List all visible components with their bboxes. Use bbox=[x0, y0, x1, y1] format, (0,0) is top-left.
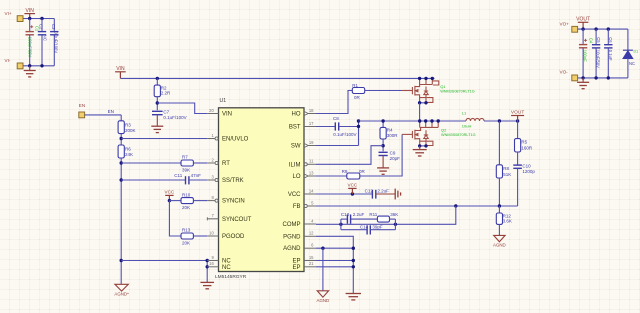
wire C1 top stub bbox=[29, 19, 31, 31]
ground (C7) bbox=[151, 126, 163, 132]
resistor R6 bbox=[118, 145, 124, 158]
node PGND bus 1 bbox=[352, 247, 355, 250]
wire input top rail bbox=[23, 18, 54, 20]
power symbol VOUT (output section) bbox=[578, 22, 589, 29]
pin 14 VCC (U1 right) bbox=[304, 193, 316, 195]
node C5 bottom bbox=[594, 76, 597, 79]
pin 15 EP (U1 right) bbox=[304, 260, 316, 262]
capacitor C1 (electrolytic, polarized) bbox=[26, 32, 34, 35]
svg-text:3.6K: 3.6K bbox=[503, 219, 512, 224]
svg-text:R10: R10 bbox=[182, 192, 191, 197]
wire pin18 HO to R1 bbox=[316, 91, 352, 114]
wire R5 to C10 bbox=[517, 152, 519, 165]
node VCC pullup node bbox=[168, 199, 171, 202]
svg-text:R7: R7 bbox=[182, 155, 188, 160]
svg-text:U1: U1 bbox=[220, 98, 227, 104]
svg-text:SYNCOUT: SYNCOUT bbox=[222, 217, 252, 223]
ground AGND (pin 6) bbox=[317, 291, 328, 297]
svg-text:C11: C11 bbox=[174, 173, 182, 178]
node C1 bottom bbox=[28, 64, 31, 67]
node EN/UVLO bbox=[120, 137, 123, 140]
svg-text:18: 18 bbox=[309, 108, 314, 113]
svg-text:C8: C8 bbox=[333, 116, 339, 121]
node Q2 D3 bbox=[430, 119, 433, 122]
resistor R13 bbox=[181, 233, 193, 239]
wire pin5 FB line bbox=[316, 205, 518, 207]
pin 13 LO (U1 right) bbox=[304, 174, 308, 178]
power symbol VCC (left) bbox=[165, 195, 173, 200]
svg-text:0R: 0R bbox=[354, 95, 361, 100]
pin 10 PGOOD (U1 left) bbox=[207, 235, 218, 237]
svg-text:20pF: 20pF bbox=[390, 156, 401, 161]
svg-text:R3: R3 bbox=[125, 122, 131, 127]
svg-text:R11: R11 bbox=[369, 212, 377, 217]
wire C12 to ground bbox=[376, 193, 395, 195]
capacitor C12 bbox=[372, 190, 375, 199]
port VO- pad bbox=[572, 75, 578, 81]
wire pin15 EP bbox=[316, 260, 353, 262]
svg-text:WNM3S0870RLT1G: WNM3S0870RLT1G bbox=[440, 90, 475, 94]
svg-text:PGND: PGND bbox=[283, 234, 301, 240]
svg-text:COMP: COMP bbox=[283, 222, 301, 228]
node VCC bbox=[351, 192, 354, 195]
wire R10 to pin8 SYNCIN bbox=[193, 200, 207, 202]
wire comp bottom branch b bbox=[370, 229, 395, 231]
wire VOUT to R5 bbox=[517, 121, 519, 139]
pin 6 AGND (U1 right) bbox=[304, 247, 316, 249]
resistor R10 bbox=[181, 198, 193, 204]
node R7 tap bbox=[120, 161, 123, 164]
pin 20 VIN (U1 left) bbox=[207, 113, 218, 115]
pin 16 NC (U1 left) bbox=[207, 266, 218, 268]
wire C8 to SW riser bbox=[339, 126, 359, 128]
svg-text:24K: 24K bbox=[125, 152, 133, 157]
port VI+ pad bbox=[17, 16, 23, 22]
port EN pad bbox=[79, 112, 85, 118]
resistor R2 bbox=[154, 85, 160, 97]
wire EN to R3 bbox=[120, 115, 122, 121]
wire C1 bottom stub bbox=[29, 35, 31, 66]
wire C7 to ground bbox=[156, 115, 158, 127]
wire Q2 source tie bbox=[420, 145, 426, 147]
node Q1 S1 bbox=[418, 101, 421, 104]
capacitor C8 bbox=[335, 122, 338, 130]
node C6 bottom bbox=[607, 76, 610, 79]
pin 8 SYNCIN (U1 left) bbox=[207, 200, 215, 202]
pin 17 BST (U1 right) bbox=[304, 126, 316, 128]
node C6 top bbox=[607, 27, 610, 30]
svg-text:39K: 39K bbox=[182, 168, 190, 173]
wire C5 top stub bbox=[595, 29, 597, 44]
wire VOUT to R8 bbox=[498, 121, 500, 165]
svg-text:47nF: 47nF bbox=[191, 173, 202, 178]
wire AGND bus left column bbox=[120, 158, 122, 284]
node Q2 D1 bbox=[418, 119, 421, 122]
node NC row tap bbox=[120, 259, 123, 262]
svg-text:BST: BST bbox=[289, 125, 301, 131]
svg-text:C4: C4 bbox=[589, 38, 594, 44]
svg-text:C7: C7 bbox=[163, 109, 169, 114]
wire FB to R12 bbox=[498, 206, 500, 213]
svg-text:WNM3S0870RLT1G: WNM3S0870RLT1G bbox=[441, 133, 476, 137]
svg-text:C5: C5 bbox=[596, 37, 601, 43]
ground (PGND/EP) bbox=[346, 294, 361, 300]
svg-text:C3: C3 bbox=[51, 24, 56, 30]
svg-text:R8: R8 bbox=[503, 166, 509, 171]
node C2 bottom bbox=[40, 64, 43, 67]
wire comp bottom branch a bbox=[341, 229, 367, 231]
svg-text:VOUT: VOUT bbox=[511, 110, 524, 116]
wire C4 top stub bbox=[582, 29, 584, 44]
wire SW rail bbox=[359, 120, 467, 122]
svg-text:VIN: VIN bbox=[26, 8, 35, 14]
capacitor C5 bbox=[592, 45, 600, 48]
resistor R8 bbox=[496, 165, 502, 178]
node FB divider bbox=[498, 204, 501, 207]
wire L1 to VOUT node bbox=[484, 120, 518, 122]
wire C2 bottom stub bbox=[41, 35, 43, 65]
ground (input section) bbox=[24, 71, 36, 77]
wire input bottom rail bbox=[23, 65, 54, 67]
svg-text:VO-: VO- bbox=[560, 70, 569, 75]
ground AGND* (left column) bbox=[115, 284, 128, 291]
svg-text:RT: RT bbox=[222, 161, 230, 167]
svg-text:16: 16 bbox=[209, 261, 214, 266]
node comp right bbox=[394, 223, 397, 226]
wire pin11 ILIM bbox=[316, 146, 383, 165]
wire D1 top stub bbox=[627, 29, 629, 50]
svg-text:VO+: VO+ bbox=[560, 22, 570, 27]
capacitor C6 bbox=[604, 45, 612, 48]
pin 4 COMP (U1 right) bbox=[304, 223, 316, 225]
wire pin12 PGND bbox=[316, 236, 353, 293]
capacitor C2 bbox=[38, 32, 46, 35]
svg-text:13: 13 bbox=[309, 170, 314, 175]
svg-text:AGND: AGND bbox=[283, 246, 301, 252]
wire C6 bottom stub bbox=[607, 49, 609, 78]
svg-text:10: 10 bbox=[209, 230, 214, 235]
pin 18 HO (U1 right) bbox=[304, 111, 308, 115]
resistor R3 bbox=[118, 121, 124, 134]
wire AGND drop bbox=[322, 248, 324, 291]
svg-text:39pF: 39pF bbox=[372, 224, 383, 229]
port VI- pad bbox=[17, 63, 23, 69]
wire VCC to R10 bbox=[169, 200, 181, 202]
diode D1 (zener, NC) bbox=[623, 50, 633, 58]
svg-text:L1: L1 bbox=[462, 111, 467, 116]
node Q1 S2 bbox=[424, 101, 427, 104]
node PGND bus 3 bbox=[352, 265, 355, 268]
wire R9 to Q2 gate bbox=[360, 134, 402, 176]
wire VIN rail bbox=[120, 77, 434, 79]
svg-text:EP: EP bbox=[292, 265, 300, 271]
wire output top rail bbox=[578, 28, 628, 30]
node C1 top bbox=[28, 17, 31, 20]
svg-text:ILIM: ILIM bbox=[289, 162, 301, 168]
transistor Q2 (low-side NMOS WNM3S0870RLT1G) bbox=[402, 121, 438, 146]
wire to pin9 NC bbox=[121, 260, 207, 262]
wire R1 to Q1 gate bbox=[365, 90, 402, 92]
wire C4 bottom stub bbox=[582, 48, 584, 78]
wire D1 bottom stub bbox=[627, 58, 629, 78]
pin 21 EP (U1 right) bbox=[304, 266, 316, 268]
node PGND bus 2 bbox=[352, 259, 355, 262]
svg-text:SYNCIN: SYNCIN bbox=[222, 199, 245, 205]
node Q1 D2 bbox=[424, 77, 427, 80]
wire to C11 bbox=[121, 179, 185, 181]
resistor R9 bbox=[347, 173, 360, 179]
pin 19 SW (U1 right) bbox=[304, 143, 308, 147]
resistor R11 bbox=[377, 216, 389, 222]
svg-text:R4: R4 bbox=[387, 128, 393, 133]
svg-text:VCC: VCC bbox=[165, 190, 175, 195]
node Q2 D4 bbox=[437, 119, 440, 122]
resistor R5 bbox=[515, 139, 521, 152]
svg-text:14: 14 bbox=[309, 188, 314, 193]
wire C3 bottom stub bbox=[53, 35, 55, 65]
ground (output section) bbox=[577, 82, 589, 88]
wire R7 to pin2 RT bbox=[193, 162, 207, 164]
wire pin13 LO to R9 bbox=[316, 175, 347, 177]
svg-text:2.2uF: 2.2uF bbox=[353, 212, 365, 217]
wire pin19 SW bbox=[316, 145, 359, 147]
resistor R1 bbox=[352, 88, 364, 94]
node Q1 D1 bbox=[418, 77, 421, 80]
svg-text:11: 11 bbox=[309, 159, 314, 164]
wire C9 to ground bbox=[382, 156, 384, 168]
wire R3 to R6 / EN-UVLO node bbox=[120, 134, 122, 145]
capacitor C11 bbox=[186, 176, 189, 184]
svg-text:2.2uF: 2.2uF bbox=[377, 189, 389, 194]
svg-text:AGND: AGND bbox=[317, 298, 330, 303]
svg-text:200K: 200K bbox=[125, 128, 136, 133]
svg-text:C2: C2 bbox=[39, 24, 44, 30]
node Q1 D3 bbox=[431, 77, 434, 80]
pin 1 EN/UVLO (U1 left) bbox=[207, 138, 215, 140]
pin 11 ILIM (U1 right) bbox=[304, 163, 307, 166]
wire VCC down to R13 bbox=[169, 201, 181, 236]
wire pin9-pin16 tie bbox=[206, 261, 208, 283]
wire output bottom rail bbox=[578, 77, 628, 79]
node R4 top bbox=[381, 119, 384, 122]
svg-text:Q2: Q2 bbox=[441, 127, 447, 132]
svg-text:NC: NC bbox=[222, 259, 231, 265]
resistor R12 bbox=[496, 213, 502, 224]
wire comp branch right stub bbox=[394, 219, 396, 230]
node C4 top bbox=[581, 27, 584, 30]
svg-text:LO: LO bbox=[292, 174, 300, 180]
pin 5 FB (U1 right) bbox=[304, 204, 307, 207]
svg-text:VOUT: VOUT bbox=[576, 17, 590, 23]
svg-text:D1: D1 bbox=[634, 50, 639, 54]
wire C11 to pin3 SS/TRK bbox=[189, 179, 207, 181]
node pin9 bbox=[206, 259, 209, 262]
svg-text:19: 19 bbox=[309, 140, 314, 145]
capacitor C10 bbox=[513, 165, 522, 168]
svg-text:HO: HO bbox=[292, 112, 301, 118]
wire comp top branch b bbox=[351, 218, 378, 220]
wire output ground stub bbox=[582, 78, 584, 82]
svg-text:NC: NC bbox=[42, 35, 47, 41]
wire to pin20 VIN bbox=[157, 103, 207, 114]
svg-text:EN: EN bbox=[108, 109, 114, 114]
pin 3 SS/TRK (U1 left) bbox=[207, 179, 215, 181]
node C4 bottom bbox=[581, 76, 584, 79]
node AGND tap bbox=[321, 247, 324, 250]
svg-text:VI+: VI+ bbox=[5, 11, 12, 16]
ground (Q2 source) bbox=[413, 150, 427, 156]
node pin16 bbox=[206, 265, 209, 268]
svg-text:0R: 0R bbox=[359, 169, 366, 174]
svg-text:51K: 51K bbox=[503, 172, 511, 177]
transistor Q1 (high-side NMOS WNM3S0870RLT1G) bbox=[402, 78, 439, 102]
svg-text:EP: EP bbox=[292, 259, 300, 265]
ground AGND (under R12) bbox=[494, 235, 505, 241]
node COMP net tap bbox=[454, 204, 457, 207]
wire pin21 EP bbox=[316, 266, 353, 268]
svg-text:36K: 36K bbox=[390, 212, 398, 217]
svg-text:300R: 300R bbox=[387, 133, 399, 138]
wire comp branch left stub bbox=[340, 219, 342, 230]
wire SW riser bbox=[358, 121, 360, 146]
node R8 top bbox=[498, 119, 501, 122]
svg-text:NC: NC bbox=[629, 61, 635, 66]
pin 9 NC (U1 left) bbox=[207, 260, 218, 262]
svg-text:EN/UVLO: EN/UVLO bbox=[222, 137, 249, 143]
node VOUT node bbox=[516, 119, 519, 122]
wire pin17 BST to C8 bbox=[316, 126, 335, 128]
wire Q1 source tie bbox=[420, 102, 426, 104]
node R2 top bbox=[156, 77, 159, 80]
wire comp top branch c bbox=[390, 218, 396, 220]
svg-text:R1: R1 bbox=[352, 83, 358, 88]
wire Q1 source to SW rail bbox=[419, 103, 421, 121]
wire R2 to C7 node bbox=[156, 97, 158, 111]
resistor R4 bbox=[380, 127, 386, 139]
wire pin14 VCC bbox=[316, 193, 372, 195]
capacitor C9 bbox=[379, 152, 388, 155]
node Q2 S1 bbox=[418, 144, 421, 147]
svg-text:PGOOD: PGOOD bbox=[222, 234, 245, 240]
svg-text:Q1: Q1 bbox=[440, 84, 446, 89]
svg-text:FB: FB bbox=[293, 204, 301, 210]
svg-text:C12: C12 bbox=[365, 189, 374, 194]
wire R8 to FB node bbox=[498, 178, 500, 206]
svg-text:EN: EN bbox=[79, 103, 85, 108]
wire C3 top stub bbox=[53, 19, 55, 31]
wire pin6 AGND bbox=[316, 247, 353, 249]
node Q2 D2 bbox=[424, 119, 427, 122]
svg-text:C6: C6 bbox=[608, 37, 613, 43]
wire R4 top stub bbox=[382, 121, 384, 127]
capacitor C13 bbox=[347, 215, 350, 224]
svg-text:NC: NC bbox=[222, 265, 231, 271]
svg-text:R6: R6 bbox=[125, 147, 131, 152]
power symbol VIN (input section) bbox=[24, 14, 35, 19]
node comp left bbox=[339, 223, 342, 226]
wire to pin1 EN/UVLO bbox=[121, 138, 207, 140]
node C11 tap bbox=[120, 178, 123, 181]
wire R2 top stub bbox=[156, 78, 158, 85]
svg-text:160R: 160R bbox=[521, 146, 533, 151]
svg-text:VIN: VIN bbox=[222, 112, 232, 118]
wire input ground stub bbox=[29, 66, 31, 71]
port VO+ pad bbox=[572, 26, 578, 32]
svg-text:20K: 20K bbox=[182, 205, 190, 210]
svg-text:20: 20 bbox=[209, 108, 214, 113]
svg-text:AGND*: AGND* bbox=[114, 292, 129, 297]
pin 7 SYNCOUT (U1 left) bbox=[207, 218, 218, 220]
node C2 top bbox=[40, 17, 43, 20]
power symbol VIN (main) bbox=[115, 72, 126, 79]
pin 12 PGND (U1 right) bbox=[304, 235, 316, 237]
capacitor C7 bbox=[152, 111, 163, 114]
svg-text:C10: C10 bbox=[522, 164, 531, 169]
svg-text:VI-: VI- bbox=[5, 58, 11, 63]
ground (C12, right-facing) bbox=[395, 189, 400, 200]
svg-text:21: 21 bbox=[309, 261, 314, 266]
svg-text:0.1uF/100V: 0.1uF/100V bbox=[163, 115, 186, 120]
op-amp U1 body (LM5145RGYR controller) bbox=[219, 108, 305, 272]
inductor L1 10uH bbox=[466, 118, 484, 121]
power symbol VCC (right) bbox=[348, 188, 356, 194]
svg-text:R9: R9 bbox=[342, 169, 348, 174]
svg-text:SS/TRK: SS/TRK bbox=[222, 178, 244, 184]
wire Q2 source to ground bbox=[419, 146, 421, 150]
node SW rail start bbox=[357, 119, 360, 122]
svg-text:17: 17 bbox=[309, 121, 314, 126]
pin 2 RT (U1 left) bbox=[207, 162, 215, 164]
svg-text:LM5145RGYR: LM5145RGYR bbox=[215, 274, 247, 280]
svg-text:0.1uF/100V: 0.1uF/100V bbox=[333, 132, 356, 137]
svg-text:1200p: 1200p bbox=[522, 169, 535, 174]
wire R13 to pin10 PGOOD bbox=[193, 235, 207, 237]
svg-text:SW: SW bbox=[291, 144, 301, 150]
wire pin4 COMP bbox=[316, 206, 456, 224]
wire EN bbox=[85, 114, 122, 116]
svg-text:12: 12 bbox=[309, 231, 314, 236]
capacitor C3 bbox=[50, 32, 58, 35]
svg-text:R13: R13 bbox=[182, 228, 191, 233]
wire R4 to C9 node bbox=[382, 139, 384, 151]
node ILIM node bbox=[381, 144, 384, 147]
capacitor C14 bbox=[367, 225, 370, 234]
svg-text:10uH: 10uH bbox=[462, 124, 472, 129]
wire C6 top stub bbox=[607, 29, 609, 44]
ground (C9) bbox=[377, 168, 389, 174]
power symbol VOUT (main) bbox=[511, 116, 524, 122]
node BST cap tap bbox=[357, 125, 360, 128]
wire C10 to FB line bbox=[517, 168, 519, 206]
ground (NC pins) bbox=[200, 282, 214, 288]
svg-text:20K: 20K bbox=[182, 241, 190, 246]
svg-text:15: 15 bbox=[309, 255, 314, 260]
svg-text:2.2R: 2.2R bbox=[161, 91, 171, 96]
svg-text:AGND: AGND bbox=[493, 242, 506, 247]
wire comp top branch a bbox=[341, 218, 348, 220]
svg-text:VIN: VIN bbox=[116, 66, 125, 72]
wire to R7 bbox=[121, 162, 181, 164]
node Q2 S2 bbox=[424, 144, 427, 147]
svg-text:VCC: VCC bbox=[288, 192, 301, 198]
wire C5 bottom stub bbox=[595, 49, 597, 78]
resistor R7 bbox=[181, 160, 193, 166]
wire R12 to AGND bbox=[498, 224, 500, 235]
node C5 top bbox=[594, 27, 597, 30]
wire C2 top stub bbox=[41, 19, 43, 31]
svg-text:C13: C13 bbox=[341, 212, 350, 217]
svg-text:C14: C14 bbox=[360, 224, 369, 229]
